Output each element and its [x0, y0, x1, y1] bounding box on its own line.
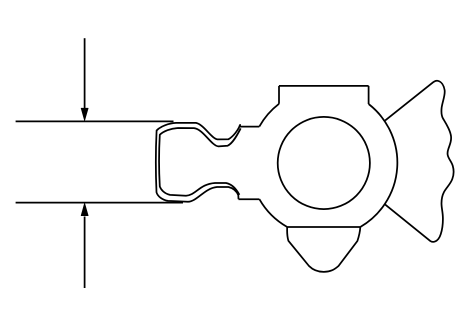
body top edge — [279, 85, 369, 87]
body right outer arc — [360, 104, 397, 227]
body right riser — [368, 86, 370, 104]
inner circle hole — [278, 117, 370, 209]
clamp band outer contour — [156, 123, 240, 202]
body left riser — [278, 86, 280, 104]
body mouth top line — [239, 126, 260, 128]
body left-bottom chamfer arc — [259, 199, 287, 227]
dimension arrow top (pointing down) — [81, 38, 88, 120]
body left-top chamfer arc — [259, 104, 279, 127]
wing grip — [385, 81, 453, 242]
dimension arrow bottom (pointing up) — [81, 203, 88, 288]
clamp band inner contour — [159, 128, 241, 196]
body bottom edge — [287, 226, 360, 228]
body mouth bottom line — [239, 198, 260, 200]
tube bottom line — [16, 202, 183, 204]
bottom triangular tab — [287, 227, 360, 272]
tube top line — [16, 120, 174, 122]
